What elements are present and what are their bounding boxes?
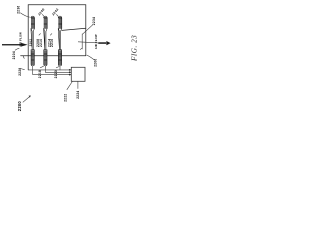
- heater element E2 (2242): [44, 16, 48, 66]
- leader from box to label 2222: [67, 82, 73, 90]
- leader label 2204: [15, 48, 19, 50]
- svg-text:2224: 2224: [76, 91, 80, 99]
- bus wire from housing to controller: [28, 69, 71, 71]
- junction dot bottom wire: [69, 74, 71, 76]
- leader label 2240: [42, 14, 44, 16]
- svg-text:2204: 2204: [12, 51, 16, 59]
- wire from E1 to controller: [33, 66, 72, 75]
- leader label 2228: [20, 69, 24, 70]
- svg-text:2202: 2202: [28, 39, 32, 47]
- inlet air flow arrow: [2, 43, 28, 47]
- leader rod to label 2234: [83, 25, 93, 34]
- baffle partition 2234: [62, 28, 86, 30]
- wire from E3: [59, 66, 61, 70]
- svg-text:2240: 2240: [37, 7, 45, 16]
- sensor probe rod 2234: [80, 34, 82, 50]
- svg-text:2222: 2222: [64, 94, 68, 102]
- duct floor tick: [23, 56, 24, 58]
- svg-text:FIG. 23: FIG. 23: [131, 35, 139, 62]
- junction dot top wire: [69, 69, 71, 71]
- leader label 2242: [56, 14, 58, 16]
- leader arrow label 2200: [23, 97, 30, 103]
- junction dot middle wire: [69, 71, 71, 73]
- svg-text:2216: 2216: [50, 39, 54, 47]
- leader label 2206: [87, 55, 95, 60]
- svg-text:AIR FLOW: AIR FLOW: [19, 32, 23, 47]
- svg-text:AIR FLOW: AIR FLOW: [94, 34, 98, 49]
- heater element E3: [58, 16, 62, 66]
- leader labels 2214/2216: [50, 33, 52, 35]
- svg-text:2220: 2220: [54, 70, 58, 78]
- svg-text:2242: 2242: [51, 7, 59, 16]
- controller box 2224: [71, 67, 85, 81]
- svg-text:2236: 2236: [17, 6, 21, 14]
- leader label 2236 to housing wall: [20, 13, 29, 17]
- leader label 2218: [40, 66, 44, 68]
- leader labels 2208/2210: [39, 33, 41, 35]
- svg-text:2210: 2210: [39, 39, 43, 47]
- leader from box to label 2224: [77, 82, 79, 89]
- outlet duct line: [78, 42, 98, 43]
- heater element E1 (2240): [31, 16, 35, 66]
- outlet air flow arrow: [98, 41, 110, 45]
- duct housing 2236: [21, 5, 86, 70]
- svg-text:2200: 2200: [17, 101, 22, 112]
- wire from E2 to controller: [45, 66, 71, 72]
- svg-text:2234: 2234: [92, 17, 96, 25]
- svg-text:2218: 2218: [38, 70, 42, 78]
- leader label 2220: [56, 66, 59, 68]
